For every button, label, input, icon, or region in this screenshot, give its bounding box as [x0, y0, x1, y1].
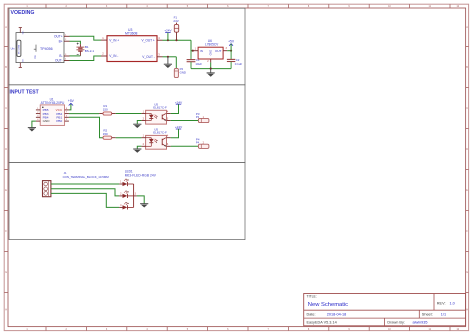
- svg-text:GND: GND: [180, 70, 186, 74]
- svg-text:BS-2-1: BS-2-1: [85, 49, 95, 53]
- wire U6 GND down: [210, 62, 212, 68]
- svg-text:ATTINY45-20PU: ATTINY45-20PU: [41, 101, 65, 105]
- module U2 TP4056: [11, 28, 70, 68]
- U6 pin 2: [210, 59, 212, 62]
- U6 pin 1: [194, 50, 198, 52]
- wire R1 to opto U5a pin1: [116, 113, 142, 115]
- ground at U5b: [133, 149, 141, 153]
- svg-text:New Schematic: New Schematic: [308, 302, 348, 308]
- resistor R1 150: [99, 104, 116, 115]
- section box INPUT TEST: [9, 85, 245, 163]
- svg-text:GND: GND: [43, 119, 51, 123]
- junction: [192, 50, 194, 52]
- svg-text:B+: B+: [59, 39, 63, 43]
- U1 pins left: [36, 109, 40, 111]
- svg-text:V_OUT -: V_OUT -: [142, 55, 155, 59]
- svg-text:+5V: +5V: [228, 39, 235, 43]
- svg-text:MT3608: MT3608: [125, 32, 138, 36]
- svg-text:150: 150: [103, 132, 108, 136]
- title block: [304, 294, 466, 326]
- U3 pin 3: [157, 56, 163, 58]
- wire opto U5a pin2 to ground: [137, 121, 141, 125]
- resistor R2 150: [103, 129, 116, 140]
- connector P2 GND: [174, 67, 186, 78]
- netflag +24V at U5a: [171, 100, 183, 113]
- svg-text:Drawn By:: Drawn By:: [387, 320, 405, 324]
- svg-text:GND: GND: [210, 50, 213, 56]
- LED1 element pin 4: [119, 202, 133, 209]
- junction: [167, 56, 169, 58]
- junction: [210, 68, 212, 70]
- wire LED1 pin3 to ground: [137, 196, 144, 204]
- svg-text:+24V: +24V: [164, 29, 172, 33]
- section box VOEDING: [9, 8, 245, 85]
- netflag +24V at U5b: [171, 125, 183, 138]
- terminal block J1: [43, 171, 110, 197]
- wire V_OUT+ rail: [163, 39, 192, 41]
- junction: [230, 50, 232, 52]
- svg-text:EasyEDA V5.3.14: EasyEDA V5.3.14: [307, 320, 337, 324]
- svg-text:M03-FLED-RGB 24V: M03-FLED-RGB 24V: [125, 173, 157, 177]
- svg-text:150: 150: [103, 108, 108, 112]
- svg-text:G: G: [5, 271, 7, 274]
- wire OUT- to U3 pin2: [70, 56, 102, 61]
- svg-text:V_IN -: V_IN -: [109, 54, 118, 58]
- svg-text:EL817C-F: EL817C-F: [153, 131, 167, 135]
- wire R2 to opto U5b pin1: [116, 137, 142, 139]
- svg-text:alwin935: alwin935: [413, 320, 428, 324]
- svg-text:TITLE:: TITLE:: [307, 295, 317, 299]
- optocoupler U5a EL817C-F: [141, 102, 170, 124]
- svg-text:0.1uF: 0.1uF: [235, 62, 243, 66]
- svg-text:Sheet:: Sheet:: [422, 313, 433, 317]
- svg-text:C: C: [5, 107, 7, 110]
- wire opto U5b pin3 to P4: [171, 145, 199, 147]
- svg-text:PB0: PB0: [56, 119, 62, 123]
- wire to P2: [175, 57, 177, 69]
- svg-text:H: H: [466, 308, 468, 311]
- svg-text:MicroUSB: MicroUSB: [19, 44, 21, 54]
- svg-text:REV:: REV:: [437, 302, 446, 306]
- wire PB2 to R1: [69, 113, 99, 115]
- wire J1-2 to LED1: [51, 189, 119, 196]
- wire B+ to battery: [70, 41, 81, 44]
- svg-text:OUT-: OUT-: [55, 59, 63, 63]
- U3 pin 4: [157, 39, 163, 41]
- svg-text:TP4056: TP4056: [40, 47, 53, 51]
- U3 pin 2: [101, 55, 107, 57]
- U1 pins right: [65, 109, 69, 111]
- wire V_OUT- net: [163, 56, 177, 58]
- LED1 cathode bus: [133, 184, 135, 207]
- wire opto U5b pin2 to ground: [137, 146, 141, 149]
- wire V_OUT+ down to U6 IN: [191, 40, 194, 51]
- svg-text:D: D: [5, 148, 7, 151]
- connector P4: [196, 137, 209, 148]
- svg-text:VOEDING: VOEDING: [11, 10, 35, 16]
- regulator U6 L7805CV: [194, 39, 228, 63]
- svg-text:INPUT TEST: INPUT TEST: [10, 89, 39, 95]
- svg-text:G: G: [466, 271, 468, 274]
- svg-text:2018-04-18: 2018-04-18: [327, 313, 346, 317]
- svg-text:CON_TERMINAL_BLOCK_10.5MM: CON_TERMINAL_BLOCK_10.5MM: [63, 175, 110, 179]
- wire OUT+ to U3 pin1: [70, 36, 102, 40]
- svg-text:CE: CE: [34, 55, 37, 59]
- junction: [167, 39, 169, 41]
- svg-text:P4: P4: [196, 140, 200, 144]
- connector P3: [196, 112, 209, 123]
- svg-text:OUT+: OUT+: [54, 34, 63, 38]
- LED array LED1 M03-FLED-RGB 24V: [119, 170, 157, 210]
- capacitor C2 0.1uF: [227, 51, 242, 69]
- LED1 pin 3: [134, 195, 137, 197]
- LED1 element pin 1: [119, 179, 133, 186]
- ground under U1: [28, 128, 36, 132]
- U3 pin 1: [101, 39, 107, 41]
- ground under U3 pin3: [164, 57, 172, 68]
- wire ground rail: [191, 68, 231, 70]
- svg-text:1.0: 1.0: [450, 302, 455, 306]
- svg-text:H: H: [5, 308, 7, 311]
- netflag +5V: [228, 39, 235, 50]
- ground at U5a: [133, 124, 141, 128]
- svg-text:IN: IN: [200, 49, 203, 53]
- svg-text:+24V: +24V: [175, 125, 183, 129]
- wire J1-1 to LED1: [51, 183, 119, 185]
- svg-text:Date:: Date:: [307, 313, 316, 317]
- fuse F1: [173, 16, 178, 41]
- mcu U1 ATTINY45-20PU: [36, 98, 69, 126]
- wire U1 GND: [32, 121, 36, 128]
- svg-text:OUT: OUT: [215, 49, 222, 53]
- capacitor C1 10uF: [187, 51, 203, 69]
- wire PB1 to R2: [69, 117, 103, 137]
- U6 pin 3: [223, 50, 227, 52]
- boost converter U3 MT3608: [101, 28, 163, 62]
- battery B1 BS-2-1: [76, 43, 94, 56]
- ground at LED1: [140, 204, 148, 208]
- svg-text:L7805CV: L7805CV: [205, 43, 219, 47]
- svg-text:1/1: 1/1: [441, 313, 446, 317]
- wire opto U5a pin3 to P3: [171, 120, 199, 122]
- svg-text:V_IN +: V_IN +: [109, 38, 119, 42]
- svg-text:D: D: [466, 148, 468, 151]
- optocoupler U5b EL817C-F: [141, 127, 170, 149]
- svg-text:EL817C-F: EL817C-F: [153, 106, 167, 110]
- svg-text:B-: B-: [59, 54, 62, 58]
- svg-text:+5V: +5V: [68, 99, 75, 103]
- svg-text:10uF: 10uF: [195, 62, 202, 66]
- wire battery minus to B-: [70, 55, 81, 57]
- LED1 element pin 2: [119, 191, 133, 198]
- svg-text:V_OUT +: V_OUT +: [141, 38, 154, 42]
- svg-text:+24V: +24V: [175, 100, 183, 104]
- netflag +5V at U1 VCC: [68, 99, 75, 110]
- netflag +24V: [164, 29, 172, 41]
- junction: [175, 39, 177, 41]
- section box 3: [9, 162, 245, 239]
- svg-text:C: C: [466, 107, 468, 110]
- svg-text:Uin: Uin: [11, 46, 15, 50]
- ground under U6: [207, 69, 215, 77]
- svg-text:5V-: 5V-: [23, 58, 25, 61]
- wire U6 OUT to +5V: [227, 50, 231, 52]
- wire J1-3 to LED1: [51, 193, 119, 207]
